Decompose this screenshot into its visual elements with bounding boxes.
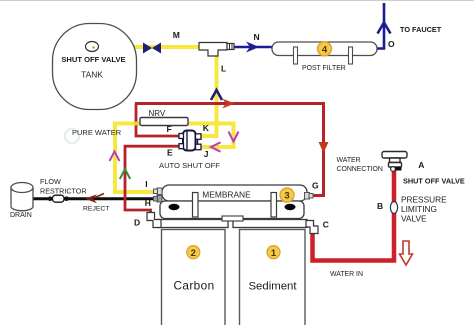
wire: yellow to I connector xyxy=(113,190,156,194)
svg-text:AUTO SHUT OFF: AUTO SHUT OFF xyxy=(159,161,220,170)
membrane vessel xyxy=(162,185,307,201)
wire: yellow J branch xyxy=(201,124,234,148)
wire: yellow pure water vertical xyxy=(113,122,117,195)
svg-text:J: J xyxy=(204,149,209,159)
reject arrow xyxy=(85,194,97,203)
connector G xyxy=(305,193,314,200)
wire: blue O line to faucet xyxy=(376,3,384,49)
svg-text:NRV: NRV xyxy=(149,109,166,118)
membrane clamp right xyxy=(271,193,277,218)
green arrow up on E line xyxy=(120,169,130,179)
svg-text:WATER IN: WATER IN xyxy=(330,271,363,278)
tank port xyxy=(86,42,99,52)
svg-text:LIMITING: LIMITING xyxy=(401,204,437,214)
svg-text:K: K xyxy=(203,123,210,133)
svg-text:Sediment: Sediment xyxy=(248,281,297,293)
marker 2 xyxy=(187,246,200,259)
connector I xyxy=(154,188,163,195)
watermark xyxy=(65,50,271,270)
wire: yellow L vertical from tee xyxy=(215,54,219,125)
svg-text:A: A xyxy=(418,160,424,170)
filter head bar left xyxy=(158,220,229,228)
wire: yellow over red crossing xyxy=(134,122,139,126)
ASO nipple E xyxy=(179,144,184,149)
tank xyxy=(53,24,137,110)
svg-text:DRAIN: DRAIN xyxy=(10,212,32,219)
connector H xyxy=(154,196,163,203)
filter head bar right xyxy=(233,220,307,228)
svg-text:POST FILTER: POST FILTER xyxy=(302,65,346,72)
wire: red F feed line xyxy=(136,104,179,137)
svg-text:2: 2 xyxy=(191,248,196,259)
post filter body xyxy=(272,42,377,56)
post filter clamp right xyxy=(349,47,353,64)
magenta arrow up on pure water line xyxy=(110,152,120,162)
fitting D xyxy=(147,213,161,228)
ASO nipple J xyxy=(196,144,202,150)
svg-text:Carbon: Carbon xyxy=(173,279,214,293)
NRV body xyxy=(140,118,188,126)
svg-text:I: I xyxy=(145,179,147,189)
wire: red E line down to D xyxy=(125,146,179,216)
wire: blue N line tee to post filter xyxy=(233,46,273,49)
pressure limiting valve B xyxy=(390,202,397,214)
wire: yellow NRV horizontal xyxy=(113,122,236,126)
svg-text:WATER: WATER xyxy=(337,157,361,164)
water in hollow arrow xyxy=(400,241,413,265)
svg-text:PURE WATER: PURE WATER xyxy=(72,128,122,137)
auto shut off valve body xyxy=(183,131,196,151)
magenta arrow left on J branch xyxy=(211,142,221,151)
svg-text:E: E xyxy=(167,148,173,158)
valve X on tank line xyxy=(143,43,161,54)
svg-text:TANK: TANK xyxy=(81,70,103,80)
tee fitting xyxy=(199,43,234,57)
blue arrow up on L line xyxy=(211,90,222,100)
marker 3 xyxy=(280,188,294,202)
sediment filter body xyxy=(240,230,306,325)
fitting C xyxy=(306,221,318,234)
marker 4 xyxy=(318,42,332,56)
svg-text:TO FAUCET: TO FAUCET xyxy=(400,25,442,34)
blue arrow N xyxy=(246,42,259,53)
svg-text:SHUT OFF VALVE: SHUT OFF VALVE xyxy=(403,177,465,186)
top border line xyxy=(0,0,474,2)
drain cylinder xyxy=(11,188,33,211)
water connection valve xyxy=(382,152,407,168)
wire: black reject line to drain xyxy=(32,197,157,200)
magenta arrow down on J branch xyxy=(229,132,239,142)
svg-text:RESTRICTOR: RESTRICTOR xyxy=(40,187,87,196)
svg-text:1: 1 xyxy=(271,248,277,259)
red arrow down on G line xyxy=(319,142,329,153)
svg-text:N: N xyxy=(254,32,260,42)
svg-text:L: L xyxy=(221,64,226,74)
blue arrow to faucet xyxy=(378,23,391,34)
svg-text:F: F xyxy=(167,124,172,134)
svg-text:B: B xyxy=(377,201,383,211)
flow restrictor xyxy=(48,196,53,201)
svg-text:D: D xyxy=(134,218,140,228)
membrane dot left xyxy=(169,204,180,210)
svg-text:MEMBRANE: MEMBRANE xyxy=(202,190,251,200)
svg-text:CONNECTION: CONNECTION xyxy=(337,166,383,173)
wire: yellow tank line M xyxy=(97,45,199,49)
membrane dot right xyxy=(285,204,296,210)
head bridge xyxy=(222,216,243,221)
svg-text:O: O xyxy=(388,39,395,49)
svg-text:M: M xyxy=(173,30,180,40)
post filter clamp left xyxy=(294,47,298,64)
wire: yellow K drop xyxy=(201,124,217,137)
ASO nipple K xyxy=(196,134,202,140)
svg-text:FLOW: FLOW xyxy=(40,177,61,186)
svg-text:REJECT: REJECT xyxy=(83,206,109,213)
membrane lower housing xyxy=(160,201,304,219)
svg-text:SHUT OFF VALVE: SHUT OFF VALVE xyxy=(61,55,125,64)
svg-text:G: G xyxy=(312,181,319,191)
wire: red water in feed (A to C) xyxy=(313,170,395,261)
membrane clamp left xyxy=(193,193,199,218)
svg-text:3: 3 xyxy=(284,191,289,202)
ASO nipple F xyxy=(179,134,184,139)
wire: red top line to G xyxy=(135,104,324,196)
red arrow right on top line xyxy=(222,99,235,109)
marker 1 xyxy=(267,246,280,259)
svg-text:VALVE: VALVE xyxy=(401,214,427,224)
svg-text:PRESSURE: PRESSURE xyxy=(401,195,447,205)
carbon filter body xyxy=(162,230,226,325)
svg-text:C: C xyxy=(323,220,329,230)
svg-text:H: H xyxy=(145,198,151,208)
svg-text:4: 4 xyxy=(322,44,328,55)
